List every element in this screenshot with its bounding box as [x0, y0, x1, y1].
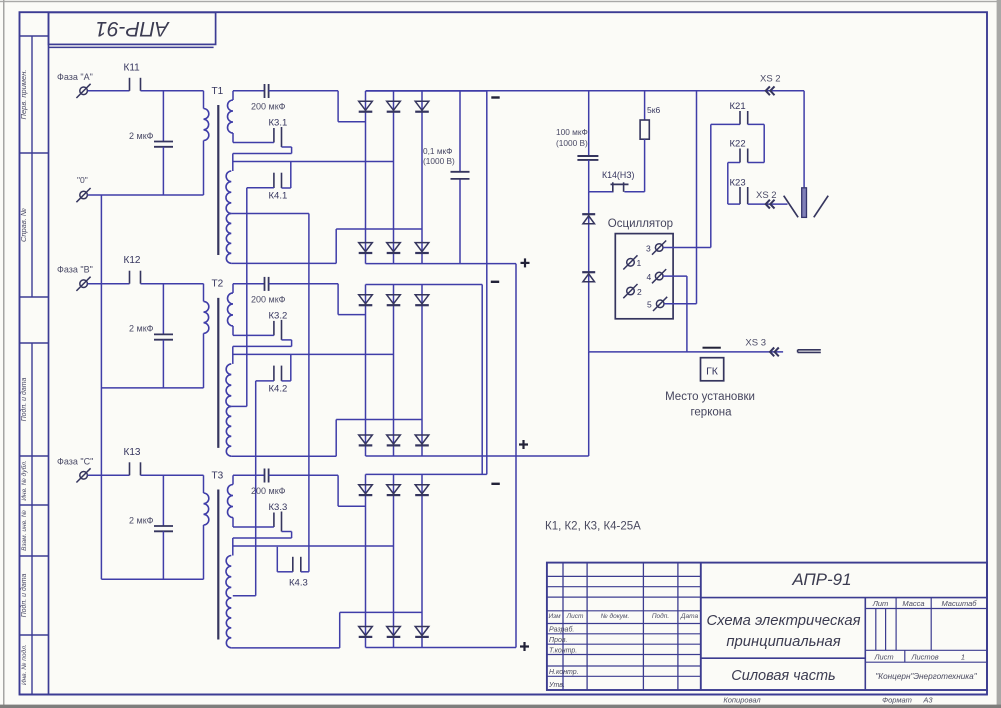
oscillator terminal 3: [655, 244, 663, 252]
resistor 5к6: [640, 120, 649, 139]
svg-text:Т3: Т3: [212, 470, 224, 481]
bridge 2 plus label: [519, 443, 528, 445]
contact К14 (НЗ): [612, 182, 614, 192]
minus mark near ГК: [703, 347, 721, 349]
transformer Т1 primary top lead: [203, 91, 205, 109]
frame bottom emphasised: [20, 694, 988, 696]
electrode gap slash left: [784, 196, 798, 218]
svg-text:XS 2: XS 2: [756, 190, 777, 201]
wire junction to capacitor C2: [162, 284, 164, 335]
svg-text:Листов: Листов: [910, 653, 938, 662]
title block right big dividers: [701, 597, 987, 599]
svg-text:Т1: Т1: [212, 86, 224, 97]
bridge 3 plus label: [520, 645, 529, 647]
resistor 5к6 bottom lead: [644, 139, 646, 192]
svg-text:принципиальная: принципиальная: [726, 634, 840, 650]
svg-text:К22: К22: [730, 139, 746, 150]
wire pin 5 rise x696.5: [696, 91, 698, 304]
contact К4.3: [292, 557, 294, 572]
wire phase А input: [88, 90, 130, 92]
capacitor 2 мкФ (phase С): [154, 525, 173, 527]
transformer Т1 secondary-3 winding: [226, 214, 231, 264]
wire К22 right lead: [748, 162, 765, 164]
wire junction to capacitor C1: [162, 91, 164, 142]
svg-text:Пров.: Пров.: [549, 637, 568, 644]
svg-text:К3.1: К3.1: [269, 118, 288, 129]
svg-text:К3.3: К3.3: [269, 502, 288, 513]
bridge 2 negative bus: [366, 284, 483, 286]
diode VD35 (lower): [387, 627, 401, 636]
bridge 3 column 3 wire: [421, 474, 423, 647]
wire link step (phase А): [232, 154, 234, 172]
wire К3.2 right lead: [282, 339, 292, 341]
wire К4.3 right lead: [301, 571, 309, 573]
wire T1 winding tap: [231, 213, 309, 215]
svg-text:(1000 В): (1000 В): [556, 138, 588, 148]
wire К4.3 left lead: [277, 571, 293, 573]
diode VD25 (lower): [387, 435, 401, 444]
transformer Т2 core: [217, 298, 219, 448]
capacitor 0,1 мкФ: [451, 171, 470, 173]
svg-text:Схема электрическая: Схема электрическая: [706, 613, 860, 629]
wire step down to bridge column 1: [337, 91, 339, 122]
bridge 2 column 3 wire: [421, 285, 423, 457]
wire 200 мкФ to bridge step: [269, 90, 339, 92]
bridge 3 minus label: [491, 483, 499, 485]
wire pin 5 out: [664, 303, 696, 305]
wire phase С input: [88, 474, 130, 476]
wire parallel link upper (phase С): [233, 537, 292, 539]
svg-text:200 мкФ: 200 мкФ: [251, 294, 286, 304]
bridge 3 column 2 wire: [393, 474, 395, 647]
wire К4.1 left drop to T2 tap: [246, 188, 248, 407]
svg-text:ГК: ГК: [706, 366, 719, 378]
wire К11 to T1 primary: [141, 90, 204, 92]
wire step up to bridge column 3 (phase В): [335, 420, 337, 457]
transformer Т2 primary top lead: [203, 284, 205, 302]
svg-text:Разраб.: Разраб.: [549, 626, 574, 634]
svg-text:Подп. и дата: Подп. и дата: [20, 573, 28, 617]
bridge 3 negative bus: [366, 473, 487, 475]
wire parallel link upper (phase В): [233, 345, 292, 347]
negative tie wire x486.8: [486, 91, 488, 474]
title block lit/massa grid: [865, 608, 987, 610]
transformer Т1 secondary-1 bottom lead: [232, 133, 234, 143]
wire bottom bus (phase В): [101, 387, 203, 389]
svg-text:Масштаб: Масштаб: [941, 599, 977, 608]
connector XS3 mating plug: [798, 349, 821, 351]
svg-text:К12: К12: [124, 255, 141, 266]
svg-text:4: 4: [647, 272, 652, 282]
wire pin 4 drop: [686, 276, 688, 352]
svg-text:Силовая часть: Силовая часть: [731, 668, 835, 684]
svg-text:Взам. инв. №: Взам. инв. №: [21, 510, 28, 551]
transformer Т2 secondary-3 winding: [226, 406, 231, 456]
svg-text:К14(НЗ): К14(НЗ): [602, 170, 635, 180]
svg-text:Изм: Изм: [548, 613, 561, 620]
svg-text:100 мкФ: 100 мкФ: [556, 127, 588, 137]
svg-text:"Концерн"Энерготехника": "Концерн"Энерготехника": [875, 672, 977, 681]
svg-text:2: 2: [637, 287, 642, 297]
svg-text:3: 3: [646, 244, 651, 254]
capacitor 100 мкФ branch upper: [588, 91, 590, 156]
diode VD26 (lower): [415, 435, 429, 444]
wire К4.2 left lead: [256, 380, 274, 382]
svg-text:200 мкФ: 200 мкФ: [251, 102, 286, 112]
wire minus drop to plus bus: [588, 352, 590, 456]
svg-text:Подп.: Подп.: [652, 612, 669, 620]
contact К3.1: [273, 128, 275, 143]
wire pin 3 out: [663, 247, 711, 249]
capacitor 200 мкФ (phase А): [264, 84, 266, 98]
diode VD22 (upper): [387, 295, 401, 304]
diode VD32 (upper): [387, 485, 401, 494]
svg-text:"0": "0": [77, 175, 88, 185]
bridge 1 positive bus: [366, 263, 517, 265]
electrode gap slash right: [814, 196, 828, 218]
diode VD7: [582, 213, 595, 215]
wire 0 net vertical x101.4: [100, 195, 102, 579]
transformer Т3 primary winding: [204, 493, 209, 525]
connector XS 3 chevrons: [770, 348, 774, 357]
contact К21: [739, 111, 741, 124]
diode VD13 (upper): [415, 101, 429, 110]
svg-text:Перв. примен.: Перв. примен.: [19, 70, 28, 120]
bridge 1 column 2 wire: [393, 91, 395, 264]
contact К23: [739, 187, 741, 204]
wire T3 winding tap: [233, 595, 256, 597]
svg-text:Т.контр.: Т.контр.: [549, 648, 577, 655]
capacitor 2 мкФ (phase В): [154, 333, 173, 335]
diode VD8: [582, 271, 595, 273]
transformer Т3 primary bottom lead: [203, 525, 205, 579]
svg-text:Подп. и дата: Подп. и дата: [20, 377, 28, 421]
svg-text:Лит: Лит: [872, 599, 889, 608]
wire К4.2 right lead: [282, 380, 291, 382]
capacitor 100 мкФ: [577, 155, 598, 157]
oscillator terminal 2: [627, 287, 635, 295]
svg-text:К3.2: К3.2: [269, 310, 288, 321]
svg-text:Справ. №: Справ. №: [19, 208, 28, 242]
svg-text:2 мкФ: 2 мкФ: [129, 131, 154, 141]
wire parallel link upper (phase А): [233, 153, 292, 155]
contact К13: [129, 462, 131, 475]
bridge 2 column 2 wire: [393, 285, 395, 457]
electrode bar: [802, 188, 807, 218]
transformer Т1 secondary-2 winding: [226, 171, 231, 214]
scan edge shading: [0, 1, 1001, 2]
wire secondary-1 bottom to К3.3 left: [233, 526, 274, 528]
diode VD16 (lower): [415, 243, 429, 252]
contact К3.3: [273, 513, 275, 528]
capacitor 0,1 мкФ branch: [459, 91, 461, 172]
wire junction to capacitor C3: [162, 475, 164, 526]
wire secondary-1 to capacitor 200 мкФ: [233, 90, 265, 92]
wire К22 left lead: [728, 162, 740, 164]
terminal Фаза С: [80, 472, 88, 480]
svg-text:Т2: Т2: [212, 279, 224, 290]
title block left verticals: [562, 563, 564, 690]
svg-text:К13: К13: [124, 447, 141, 458]
svg-text:XS 2: XS 2: [760, 74, 781, 85]
svg-text:XS 3: XS 3: [745, 337, 766, 348]
wire К4.1 left lead: [247, 187, 274, 189]
bridge 2 positive bus: [366, 455, 589, 457]
contact К12: [129, 271, 131, 284]
svg-text:К4.1: К4.1: [269, 191, 288, 202]
capacitor 100 мкФ branch lower: [588, 160, 590, 192]
wire step down to bridge column 1: [337, 284, 339, 315]
diode VD11 (upper): [359, 101, 373, 110]
svg-text:Фаза "В": Фаза "В": [57, 265, 93, 275]
diode VD14 (lower): [359, 243, 373, 252]
left margin column right rule x48.5: [48, 12, 50, 694]
wire to bridge column 2 (phase С): [233, 545, 394, 547]
bridge 1 negative bus: [366, 90, 487, 92]
transformer Т2 secondary-2 winding: [226, 364, 231, 407]
bridge 1 column 1 wire: [365, 91, 367, 264]
transformer Т1 core: [217, 105, 219, 255]
svg-text:геркона: геркона: [690, 407, 732, 419]
svg-text:0,1 мкФ: 0,1 мкФ: [423, 146, 452, 156]
diode VD21 (upper): [359, 295, 373, 304]
svg-text:Фаза "С": Фаза "С": [57, 456, 93, 466]
title block outer: [547, 563, 987, 690]
diode VD36 (lower): [415, 627, 429, 636]
transformer Т1 primary bottom lead: [203, 141, 205, 196]
transformer Т3 secondary-1 bottom lead: [232, 518, 234, 528]
svg-text:К21: К21: [730, 101, 746, 112]
wire К23 right lead: [748, 203, 788, 205]
wire 200 мкФ to bridge step: [269, 474, 339, 476]
svg-text:Осциллятор: Осциллятор: [608, 218, 673, 230]
wire diode chain: [588, 192, 590, 352]
wire К3.1 right lead: [282, 146, 292, 148]
wire tap drop x308.9: [308, 214, 310, 572]
terminal Фаза А: [80, 87, 88, 95]
oscillator terminal 4: [655, 272, 663, 280]
svg-text:2 мкФ: 2 мкФ: [129, 324, 154, 334]
wire К4.1 right lead: [282, 187, 291, 189]
wire to bridge column 2 (phase В): [233, 353, 394, 355]
svg-text:1: 1: [961, 653, 965, 662]
wire К14 to resistor: [624, 191, 644, 193]
wire bottom bus (phase С): [101, 578, 203, 580]
wire К21-К22 right link: [763, 124, 765, 162]
transformer Т3 secondary-3 winding: [226, 598, 231, 648]
left margin box dividers: [20, 35, 49, 37]
diode VD34 (lower): [359, 627, 373, 636]
wire К21 left lead: [711, 123, 740, 125]
terminal Фаза В: [80, 280, 88, 288]
svg-text:(1000 В): (1000 В): [423, 156, 455, 166]
oscillator terminal 5: [656, 300, 664, 308]
svg-text:Дата: Дата: [680, 613, 699, 620]
transformer Т3 secondary-2 winding: [226, 556, 231, 599]
connector XS 2 chevrons (lower): [766, 200, 770, 209]
contact К11: [129, 78, 131, 91]
diode VD33 (upper): [415, 485, 429, 494]
wire Т1 secondary-3 bottom: [231, 262, 336, 264]
wire link step (phase В): [232, 346, 234, 364]
wire link step (phase С): [232, 538, 234, 556]
wire rail corner to electrode: [803, 91, 805, 188]
wire secondary-1 to capacitor 200 мкФ: [233, 474, 265, 476]
wire step down to bridge column 1: [337, 475, 339, 506]
svg-text:200 мкФ: 200 мкФ: [251, 486, 286, 496]
svg-text:А3: А3: [922, 696, 933, 705]
svg-text:Инв. № подл.: Инв. № подл.: [20, 644, 28, 685]
wire К3.3 right lead: [282, 531, 292, 533]
oscillator link wire XS3 row: [589, 351, 783, 353]
transformer Т2 primary bottom lead: [203, 333, 205, 388]
top rail wire: [366, 90, 805, 92]
bridge 1 column 3 wire: [421, 91, 423, 264]
svg-text:№ докум.: № докум.: [601, 612, 630, 620]
svg-text:5: 5: [647, 300, 652, 310]
svg-text:К1, К2, К3, К4-25А: К1, К2, К3, К4-25А: [545, 521, 641, 533]
transformer Т3 secondary-1 winding: [228, 485, 234, 518]
terminal "0": [80, 191, 88, 199]
svg-text:Инв. № дубл.: Инв. № дубл.: [20, 460, 28, 501]
bridge 3 column 1 wire: [365, 474, 367, 647]
wire T2 winding tap: [231, 405, 247, 407]
wire capacitor to bottom bus (phase С): [162, 531, 164, 579]
contact К3.2: [273, 321, 275, 336]
top title box: [49, 12, 216, 44]
transformer Т2 secondary-1 bottom lead: [232, 326, 234, 336]
wire phase В input: [88, 283, 130, 285]
svg-text:К4.3: К4.3: [289, 578, 308, 589]
svg-text:К11: К11: [124, 62, 141, 73]
wire 200 мкФ to bridge step: [269, 283, 339, 285]
transformer Т3 core: [217, 490, 219, 640]
svg-text:Место установки: Место установки: [665, 391, 755, 403]
svg-text:К4.2: К4.2: [269, 383, 288, 394]
wire step up to bridge column 3 (phase С): [339, 612, 341, 648]
contact К4.2: [273, 366, 275, 381]
wire К22-К23 left link: [727, 163, 729, 205]
bridge 1 minus label: [491, 96, 499, 98]
svg-text:К23: К23: [730, 178, 746, 189]
capacitor 200 мкФ (phase С): [264, 469, 266, 483]
capacitor 2 мкФ (phase А): [154, 141, 173, 143]
svg-text:АПР-91: АПР-91: [95, 17, 170, 40]
wire secondary-1 bottom to К3.2 left: [233, 334, 274, 336]
diode VD24 (lower): [359, 435, 373, 444]
transformer Т2 primary winding: [204, 301, 209, 333]
wire node to К14: [589, 191, 614, 193]
svg-text:1: 1: [637, 258, 642, 268]
wire capacitor to bottom bus (phase В): [162, 340, 164, 388]
wire К13 to T3 primary: [141, 474, 204, 476]
wire К21 right lead: [748, 123, 765, 125]
svg-text:Формат: Формат: [882, 696, 912, 705]
resistor 5к6 top lead: [644, 91, 646, 120]
wire К21 left drop to pin3: [710, 124, 712, 247]
transformer Т2 secondary-1 top lead: [232, 284, 234, 293]
negative tie wire x482.2: [481, 285, 483, 475]
contact К4.1: [273, 173, 275, 188]
transformer Т1 primary winding: [204, 109, 209, 141]
wire К23 left lead: [728, 203, 740, 205]
svg-text:Фаза "А": Фаза "А": [57, 72, 93, 82]
bridge 2 minus label: [491, 281, 499, 283]
svg-text:Копировал: Копировал: [723, 696, 761, 705]
wire Т3 secondary-3 bottom: [231, 647, 339, 649]
wire secondary-1 to capacitor 200 мкФ: [233, 283, 265, 285]
wire secondary-1 bottom to К3.1 left: [233, 142, 274, 144]
wire К12 to T2 primary: [141, 283, 204, 285]
bridge 1 plus label: [521, 262, 530, 264]
op block Осциллятор box: [615, 234, 673, 319]
transformer Т1 secondary-1 top lead: [232, 91, 234, 100]
diode VD31 (upper): [359, 485, 373, 494]
bridge 3 positive bus: [366, 647, 517, 649]
svg-text:Лист: Лист: [566, 613, 584, 620]
wire К4.2 left drop to T3 tap: [255, 381, 257, 596]
box ГК: [701, 358, 724, 381]
contact К22: [739, 149, 741, 163]
wire to bridge column 2 (phase А): [233, 161, 394, 163]
wire pin 4 out: [663, 275, 687, 277]
wire capacitor to bottom bus (phase А): [162, 147, 164, 195]
diode VD15 (lower): [387, 243, 401, 252]
svg-text:Н.контр.: Н.контр.: [549, 669, 579, 676]
diode VD12 (upper): [387, 101, 401, 110]
oscillator terminal 1: [627, 259, 635, 267]
svg-text:Масса: Масса: [902, 599, 924, 608]
connector XS 2 chevrons (upper): [766, 86, 770, 95]
transformer Т2 secondary-1 winding: [228, 293, 234, 326]
wire 0 bus: [88, 194, 204, 196]
capacitor 200 мкФ (phase В): [264, 277, 266, 291]
wire Т2 secondary-3 bottom: [231, 455, 336, 457]
diode VD23 (upper): [415, 295, 429, 304]
svg-text:5к6: 5к6: [647, 105, 660, 115]
transformer Т1 secondary-1 winding: [228, 100, 234, 133]
transformer Т3 secondary-1 top lead: [232, 475, 234, 484]
svg-text:Утв.: Утв.: [548, 682, 565, 689]
title block left horizontals: [547, 575, 701, 577]
svg-text:АПР-91: АПР-91: [791, 570, 851, 589]
svg-text:Лист: Лист: [873, 653, 893, 662]
left margin column inner rule x32: [31, 36, 33, 297]
transformer Т3 primary top lead: [203, 475, 205, 493]
svg-text:2 мкФ: 2 мкФ: [129, 515, 154, 525]
positive tie wire x516: [515, 264, 517, 648]
bridge 2 column 1 wire: [365, 285, 367, 457]
wire step up to bridge column 3 (phase А): [335, 229, 337, 263]
